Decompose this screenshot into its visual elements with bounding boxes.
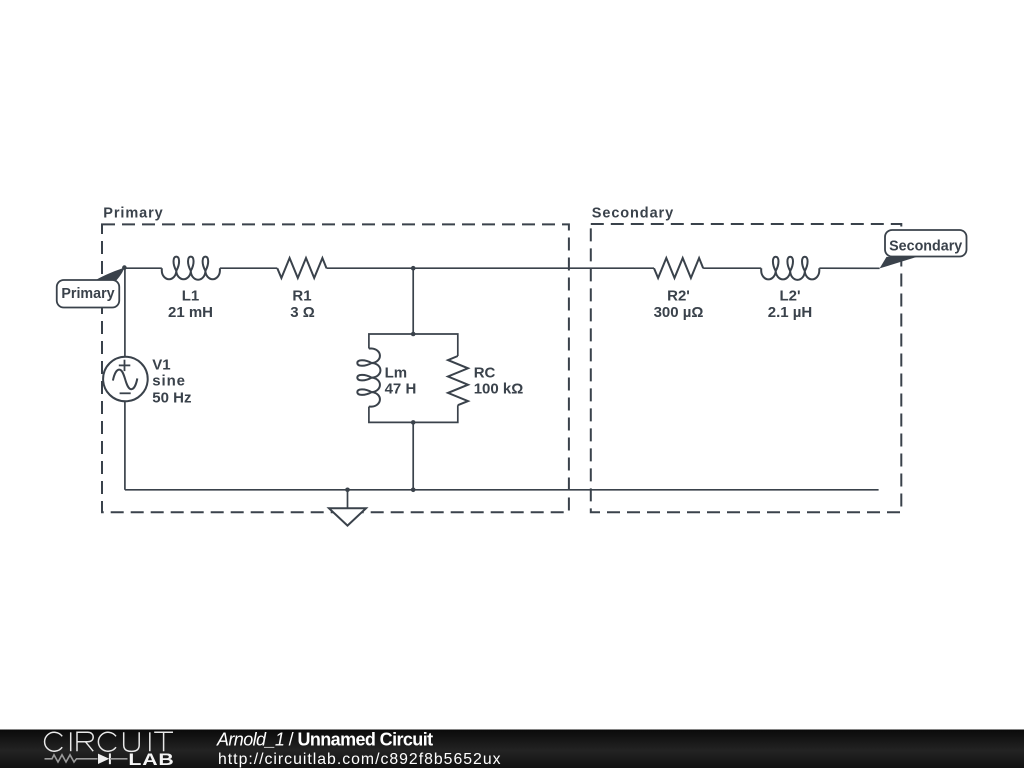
primary flag box bbox=[57, 280, 120, 308]
wire V1 to bottom bus bbox=[124, 401, 126, 490]
V1 plus sign bbox=[119, 360, 131, 371]
node at ground bus bbox=[411, 488, 416, 493]
svg-text:21 mH: 21 mH bbox=[168, 304, 213, 321]
svg-text:3 Ω: 3 Ω bbox=[290, 304, 315, 321]
wire node A to L1 bbox=[124, 267, 161, 269]
svg-text:LAB: LAB bbox=[128, 751, 174, 768]
node A dot bbox=[122, 265, 127, 270]
resistor R2' bbox=[654, 258, 703, 278]
parallel top rail bbox=[369, 334, 458, 356]
logo CIRCUIT word bbox=[45, 732, 173, 751]
node on top rail bbox=[411, 332, 416, 337]
svg-text:Primary: Primary bbox=[103, 206, 163, 222]
inductor L2' bbox=[761, 257, 819, 280]
wire node A down to V1 bbox=[124, 268, 126, 357]
wire R1 to R2' across boxes bbox=[327, 267, 655, 269]
svg-text:R2': R2' bbox=[667, 288, 690, 305]
svg-text:47 H: 47 H bbox=[385, 381, 417, 398]
secondary flag box bbox=[885, 230, 967, 257]
svg-text:RC: RC bbox=[474, 365, 496, 382]
resistor RC bbox=[448, 356, 468, 405]
svg-text:Arnold_1 / Unnamed Circuit: Arnold_1 / Unnamed Circuit bbox=[216, 729, 433, 749]
ground stem bbox=[347, 490, 349, 509]
svg-text:50 Hz: 50 Hz bbox=[152, 389, 191, 406]
inductor L1 bbox=[162, 257, 220, 280]
wire bottom rail down to ground bus bbox=[412, 422, 414, 489]
parallel bottom rail bbox=[369, 405, 458, 422]
svg-text:L2': L2' bbox=[779, 288, 800, 305]
ground bus wire bbox=[125, 489, 879, 491]
svg-text:Secondary: Secondary bbox=[889, 238, 962, 254]
source V1 circle bbox=[103, 357, 148, 402]
wire L2' to secondary flag bbox=[819, 267, 879, 269]
wire junction down to parallel rail bbox=[412, 268, 414, 334]
node on bottom rail bbox=[411, 420, 416, 425]
resistor R1 bbox=[277, 258, 326, 278]
svg-text:R1: R1 bbox=[292, 288, 311, 305]
primary flag pointer bbox=[94, 268, 125, 282]
secondary enclosure dashed box bbox=[591, 224, 902, 512]
wire R2' lead bbox=[703, 267, 761, 269]
svg-text:V1: V1 bbox=[152, 357, 170, 374]
ground node dot bbox=[345, 488, 350, 493]
svg-text:Lm: Lm bbox=[385, 365, 408, 382]
logo resistor-diode symbol bbox=[45, 753, 128, 764]
V1 minus sign bbox=[120, 392, 131, 394]
svg-text:Primary: Primary bbox=[61, 286, 114, 302]
svg-text:300 µΩ: 300 µΩ bbox=[654, 304, 704, 321]
svg-text:L1: L1 bbox=[182, 288, 200, 305]
ground symbol bbox=[329, 508, 366, 525]
svg-text:sine: sine bbox=[152, 372, 186, 389]
svg-text:100 kΩ: 100 kΩ bbox=[474, 381, 524, 398]
inductor Lm bbox=[357, 349, 380, 407]
V1 sine symbol bbox=[113, 370, 137, 390]
svg-text:2.1 µH: 2.1 µH bbox=[768, 304, 813, 321]
primary enclosure dashed box bbox=[102, 224, 569, 512]
svg-text:http://circuitlab.com/c892f8b5: http://circuitlab.com/c892f8b5652ux bbox=[218, 751, 502, 768]
node junction at top of Lm/RC branch bbox=[411, 266, 416, 271]
secondary flag pointer bbox=[880, 257, 917, 269]
wire L1 to R1 bbox=[220, 267, 277, 269]
svg-text:Secondary: Secondary bbox=[592, 206, 674, 222]
footer bar bbox=[0, 730, 1024, 768]
